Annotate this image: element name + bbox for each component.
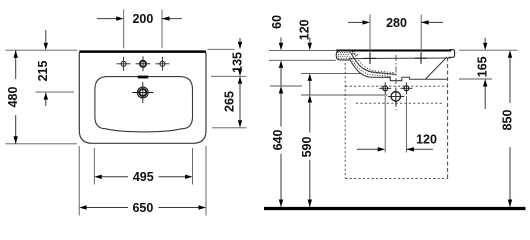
svg-text:215: 215 [36, 61, 50, 82]
basin front rim slab [336, 51, 350, 60]
dimension 60 [270, 15, 284, 68]
dimension 480 [6, 50, 20, 144]
dimension 215 extension line [36, 91, 75, 93]
svg-text:280: 280 [386, 16, 407, 30]
svg-text:120: 120 [298, 19, 312, 40]
faucet hole right [155, 57, 169, 71]
dimension 120 vertical [298, 19, 312, 81]
floor line [264, 207, 526, 210]
fixing hole left circle [379, 82, 391, 94]
dimension 495 extension lines [94, 148, 192, 185]
svg-text:480: 480 [6, 87, 20, 108]
dimension 640 [271, 68, 285, 207]
rim underside extension line left [269, 59, 336, 61]
overflow hole double circle [132, 82, 153, 103]
dimension 850 [500, 50, 514, 207]
svg-text:650: 650 [132, 201, 153, 215]
basin deck underside line [349, 57, 451, 60]
basin outer outline [79, 51, 206, 143]
fixing hole right circle [400, 82, 412, 94]
dimension 200 extension lines [124, 10, 162, 49]
dimension 650 extension lines [79, 146, 206, 216]
svg-text:120: 120 [416, 132, 437, 146]
tap hole crosshair front [364, 53, 376, 64]
drain boss [390, 77, 402, 81]
pedestal dashed box [345, 63, 447, 179]
dimension 480 extension lines [6, 50, 78, 144]
dimension 165 [475, 38, 489, 109]
overflow slot [138, 76, 148, 79]
rim top extension line right [459, 49, 518, 51]
basin rim right end cap [449, 50, 455, 58]
basin top edge thick line [79, 50, 205, 53]
tap hole crosshair back [415, 53, 427, 64]
dimension 590 [300, 81, 314, 207]
dimension 120 extension lines [385, 96, 406, 153]
rim top extension line left [269, 49, 336, 51]
dimension 120 horizontal [357, 132, 437, 151]
dimension 135 [231, 38, 245, 76]
faucet hole left [117, 57, 131, 71]
basin back bottom extension line [459, 78, 492, 80]
svg-text:200: 200 [132, 12, 153, 26]
pedestal top extension line [270, 85, 302, 87]
dimension 280 extension lines [370, 15, 421, 54]
tap deck extension line [301, 72, 362, 74]
svg-text:135: 135 [231, 52, 245, 73]
svg-text:165: 165 [475, 56, 489, 77]
basin back underside diagonal [426, 57, 448, 79]
dimension 650 [79, 201, 206, 215]
faucet hole middle [136, 56, 151, 71]
wall back dashed line [447, 58, 449, 179]
svg-text:640: 640 [271, 130, 285, 151]
basin back underside step [402, 77, 448, 79]
svg-text:590: 590 [300, 137, 314, 158]
dimension 200 [97, 12, 182, 26]
drain level extension line [301, 94, 388, 96]
basin rim top thick line [336, 50, 451, 52]
svg-text:265: 265 [223, 91, 237, 112]
dimension 495 [94, 170, 192, 184]
svg-text:60: 60 [270, 15, 284, 29]
section stipple dots [338, 52, 396, 77]
drain hole circle [388, 88, 405, 106]
bowl outer underside curve [350, 60, 391, 78]
drain center line [395, 55, 397, 110]
bowl inner curve [351, 53, 396, 74]
dimension 265 [223, 76, 243, 128]
svg-text:850: 850 [500, 110, 514, 131]
dimension 215 [36, 30, 50, 106]
right chain extension lines [208, 49, 247, 128]
svg-text:495: 495 [133, 170, 154, 184]
inner bowl outline [95, 77, 193, 132]
dimension 280 [348, 16, 443, 30]
